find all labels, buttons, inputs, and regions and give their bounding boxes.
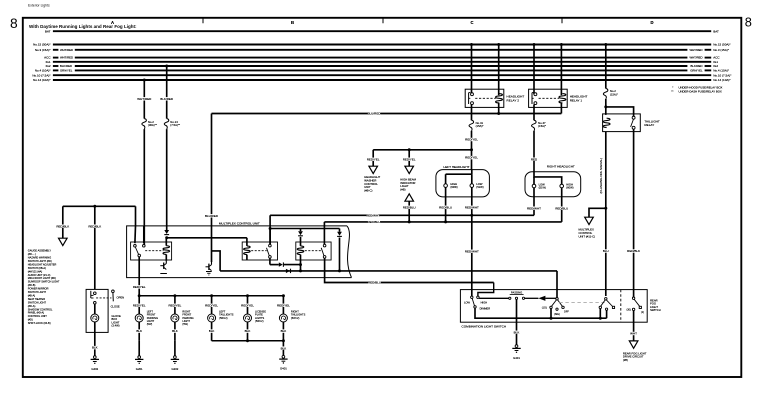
svg-text:RED/YEL: RED/YEL <box>403 157 416 161</box>
svg-text:RED/YEL: RED/YEL <box>465 156 478 160</box>
svg-text:BLK/RED: BLK/RED <box>691 64 703 68</box>
svg-text:(#D-...): (#D-...) <box>28 252 36 256</box>
svg-text:IG2: IG2 <box>713 64 718 68</box>
svg-text:HEADLIGHT ADJUSTER: HEADLIGHT ADJUSTER <box>28 262 57 266</box>
svg-text:RED/WHT: RED/WHT <box>527 206 541 210</box>
svg-text:SWITCH LIGHT (#D): SWITCH LIGHT (#D) <box>28 259 52 263</box>
svg-text:GRN/YEL: GRN/YEL <box>690 69 703 73</box>
svg-text:BLK: BLK <box>209 329 215 333</box>
svg-text:BLK: BLK <box>514 330 520 334</box>
svg-text:RED/YEL: RED/YEL <box>465 138 478 142</box>
svg-text:RED/WHT: RED/WHT <box>465 249 479 253</box>
svg-text:WHT/RED: WHT/RED <box>137 97 152 101</box>
svg-text:BAT: BAT <box>713 29 719 33</box>
svg-text:RELAY: RELAY <box>644 123 654 127</box>
svg-text:POWER MIRROR: POWER MIRROR <box>28 287 49 291</box>
svg-text:RED/YEL: RED/YEL <box>277 303 290 307</box>
svg-text:BLK/RED: BLK/RED <box>60 64 72 68</box>
svg-text:RED/BLK: RED/BLK <box>88 224 101 228</box>
svg-text:HAZARD WARNING: HAZARD WARNING <box>28 256 51 260</box>
svg-text:SUNROOF SWITCH LIGHT: SUNROOF SWITCH LIGHT <box>28 280 60 284</box>
svg-text:G402: G402 <box>91 367 98 371</box>
svg-text:RED/WHT: RED/WHT <box>465 205 479 209</box>
svg-text:RED/BLU: RED/BLU <box>439 205 452 209</box>
svg-text:(ME): (ME) <box>554 313 560 316</box>
svg-text:No.3 (15A)*: No.3 (15A)* <box>35 48 52 52</box>
svg-text:(#B): (#B) <box>400 187 405 191</box>
svg-text:(#D): (#D) <box>28 318 33 322</box>
svg-text:(51W): (51W) <box>476 185 483 189</box>
svg-text:UNDER-DASH FUSE/RELAY BOX: UNDER-DASH FUSE/RELAY BOX <box>679 89 722 93</box>
svg-text:(15A)*: (15A)* <box>538 124 547 128</box>
svg-text:(#D-B): (#D-B) <box>28 283 36 287</box>
svg-text:BLU/RED: BLU/RED <box>205 214 219 218</box>
svg-text:BLK: BLK <box>281 329 287 333</box>
svg-text:SWITCH LIGHT: SWITCH LIGHT <box>28 300 47 304</box>
svg-text:BLU/RED: BLU/RED <box>367 112 381 116</box>
svg-text:SHIFT-LOCK (#4-B): SHIFT-LOCK (#4-B) <box>28 321 51 325</box>
svg-text:Exterior Lights: Exterior Lights <box>28 3 50 7</box>
svg-text:WHT: WHT <box>630 332 637 336</box>
svg-text:SEAT HEATER: SEAT HEATER <box>28 297 45 301</box>
svg-text:BLK: BLK <box>92 346 98 350</box>
svg-text:SWITCH (#B-A): SWITCH (#B-A) <box>28 266 46 270</box>
svg-text:(60W): (60W) <box>566 186 573 190</box>
svg-text:(#W121 (#A): (#W121 (#A) <box>28 269 43 273</box>
svg-text:UNIT (#11-C): UNIT (#11-C) <box>579 234 596 238</box>
svg-text:SWITCH LIGHT: SWITCH LIGHT <box>28 290 47 294</box>
svg-text:LEFT HEADLIGHT: LEFT HEADLIGHT <box>443 165 469 169</box>
svg-text:COMBINATION LIGHT SWITCH: COMBINATION LIGHT SWITCH <box>462 325 507 329</box>
svg-text:RED/BLU: RED/BLU <box>368 281 381 285</box>
svg-text:No.4 (10A)*: No.4 (10A)* <box>35 69 52 73</box>
svg-text:RED/YEL: RED/YEL <box>133 303 146 307</box>
svg-text:WHT/RED: WHT/RED <box>60 56 73 60</box>
svg-text:LOW: LOW <box>464 300 470 304</box>
svg-text:CLOSE: CLOSE <box>111 304 120 308</box>
svg-text:B: B <box>291 20 294 25</box>
svg-text:(15A)*: (15A)* <box>476 124 485 128</box>
svg-text:RELAY 1: RELAY 1 <box>570 98 583 102</box>
svg-text:RED/BLU: RED/BLU <box>403 205 416 209</box>
svg-text:(15A)*: (15A)* <box>610 92 619 96</box>
svg-text:(5W): (5W) <box>182 322 188 326</box>
svg-text:No.14 (10A)*: No.14 (10A)* <box>33 78 51 82</box>
svg-text:No.15 (50A)*: No.15 (50A)* <box>33 43 51 47</box>
svg-text:RED/BLK: RED/BLK <box>627 249 640 253</box>
svg-text:BLK: BLK <box>172 329 178 333</box>
svg-text:8: 8 <box>745 15 752 30</box>
svg-text:OPEN: OPEN <box>117 295 125 299</box>
svg-text:WHT/RED: WHT/RED <box>689 48 702 52</box>
svg-text:CONTROL UNIT: CONTROL UNIT <box>28 314 47 318</box>
svg-text:RED/BLU: RED/BLU <box>367 220 380 224</box>
svg-text:G202: G202 <box>171 367 178 371</box>
svg-text:BAT: BAT <box>45 29 51 33</box>
svg-text:No.10 (7.5A)*: No.10 (7.5A)* <box>713 73 732 77</box>
svg-text:(FLASHING DRL SIGNAL): (FLASHING DRL SIGNAL) <box>599 158 603 194</box>
svg-text:IG2: IG2 <box>46 64 51 68</box>
svg-text:G401: G401 <box>280 367 287 371</box>
svg-text:(1G): (1G) <box>542 307 547 310</box>
svg-text:RED/WHT: RED/WHT <box>366 213 380 217</box>
svg-text:G401: G401 <box>513 356 520 360</box>
svg-text:No.10 (7.5A)*: No.10 (7.5A)* <box>32 73 51 77</box>
svg-text:(60W): (60W) <box>450 185 457 189</box>
svg-text:MULTIPLEX CONTROL UNIT: MULTIPLEX CONTROL UNIT <box>219 221 260 225</box>
svg-text:RELAY 2: RELAY 2 <box>507 98 520 102</box>
svg-text:BLK: BLK <box>245 329 251 333</box>
svg-text:No.15 (50A)*: No.15 (50A)* <box>713 43 731 47</box>
svg-text:No.3 (15A)*: No.3 (15A)* <box>713 48 730 52</box>
svg-text:RED/YEL: RED/YEL <box>205 303 218 307</box>
svg-text:No.14 (10A)*: No.14 (10A)* <box>713 78 731 82</box>
svg-text:BLK: BLK <box>281 346 287 350</box>
svg-text:BLU: BLU <box>603 249 609 253</box>
svg-text:(51W): (51W) <box>539 186 546 190</box>
svg-text:WHT/RED: WHT/RED <box>60 48 73 52</box>
svg-text:RED/BLK: RED/BLK <box>56 224 69 228</box>
svg-text:(1): (1) <box>641 311 644 314</box>
svg-text:HIGH: HIGH <box>481 300 488 304</box>
svg-text:OFF: OFF <box>564 310 569 313</box>
svg-text:(#B-C): (#B-C) <box>364 188 372 192</box>
svg-text:RED/YEL: RED/YEL <box>168 303 181 307</box>
svg-text:RED/BLU: RED/BLU <box>555 206 568 210</box>
svg-text:SHADOW CONTROL: SHADOW CONTROL <box>28 307 53 311</box>
svg-text:PANEL (#D-A): PANEL (#D-A) <box>28 311 44 315</box>
svg-text:D: D <box>650 20 653 25</box>
svg-text:(30A)**: (30A)** <box>148 123 158 127</box>
svg-text:C: C <box>470 20 473 25</box>
svg-text:(5W): (5W) <box>147 322 153 326</box>
svg-text:(3.4W): (3.4W) <box>112 324 120 328</box>
svg-text:RED/YEL: RED/YEL <box>241 303 254 307</box>
svg-text:(#8): (#8) <box>623 358 628 362</box>
svg-text:(#B-A): (#B-A) <box>28 293 36 297</box>
svg-text:(30): (30) <box>626 309 631 312</box>
svg-text:(5W×2): (5W×2) <box>255 319 264 323</box>
svg-text:RIGHT HEADLIGHT: RIGHT HEADLIGHT <box>547 164 575 168</box>
svg-text:(#D-A): (#D-A) <box>28 304 36 308</box>
svg-text:8: 8 <box>10 16 18 31</box>
svg-text:RED/YEL: RED/YEL <box>133 285 146 289</box>
svg-text:(5W×2): (5W×2) <box>291 316 300 320</box>
svg-text:MID-FRONT LIGHT (#D): MID-FRONT LIGHT (#D) <box>28 276 56 280</box>
svg-text:WHT/RED: WHT/RED <box>689 56 702 60</box>
svg-text:SWITCH: SWITCH <box>650 308 661 312</box>
svg-text:AUDIO UNIT (#1-C): AUDIO UNIT (#1-C) <box>28 273 51 277</box>
svg-text:G201: G201 <box>136 367 143 371</box>
svg-text:(7.5A)**: (7.5A)** <box>170 123 181 127</box>
svg-text:GAUGE ASSEMBLY: GAUGE ASSEMBLY <box>28 249 52 253</box>
svg-text:RED/YEL: RED/YEL <box>367 157 380 161</box>
svg-text:BLK: BLK <box>136 329 142 333</box>
svg-text:No.4 (10A)*: No.4 (10A)* <box>713 69 730 73</box>
svg-text:BLK/RED: BLK/RED <box>160 97 174 101</box>
svg-text:GRN/YEL: GRN/YEL <box>60 69 73 73</box>
svg-text:DIMMER: DIMMER <box>480 307 491 311</box>
svg-text:(5W×2): (5W×2) <box>219 316 228 320</box>
svg-text:RED: RED <box>531 157 538 161</box>
